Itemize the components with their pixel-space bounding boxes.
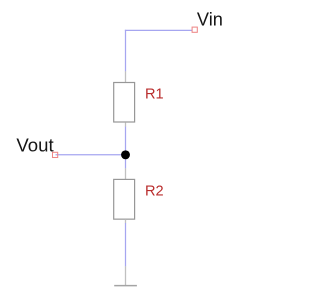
pin R1 bottom stub	[125, 122, 127, 126]
wire node to R2	[125, 155, 127, 169]
wire Vin horizontal	[125, 29, 192, 31]
resistor R2 body	[114, 179, 135, 219]
pin R1 top	[125, 71, 127, 82]
ground bar	[114, 285, 137, 287]
ground pin vertical	[125, 266, 127, 285]
wire Vin vertical to R1	[125, 30, 127, 72]
pin R2 top	[125, 168, 127, 179]
junction node	[121, 150, 130, 159]
svg-text:Vout: Vout	[16, 135, 54, 156]
svg-text:R2: R2	[145, 184, 164, 200]
wire R2 to ground	[125, 223, 127, 266]
svg-text:Vin: Vin	[197, 9, 223, 29]
terminal pin Vout	[53, 152, 58, 157]
svg-text:R1: R1	[145, 87, 164, 103]
resistor R1 body	[114, 83, 135, 123]
wire R1 to node	[125, 127, 127, 155]
pin R2 bottom stub	[125, 219, 127, 223]
wire Vout horizontal	[56, 154, 126, 156]
terminal pin Vin	[192, 27, 197, 32]
